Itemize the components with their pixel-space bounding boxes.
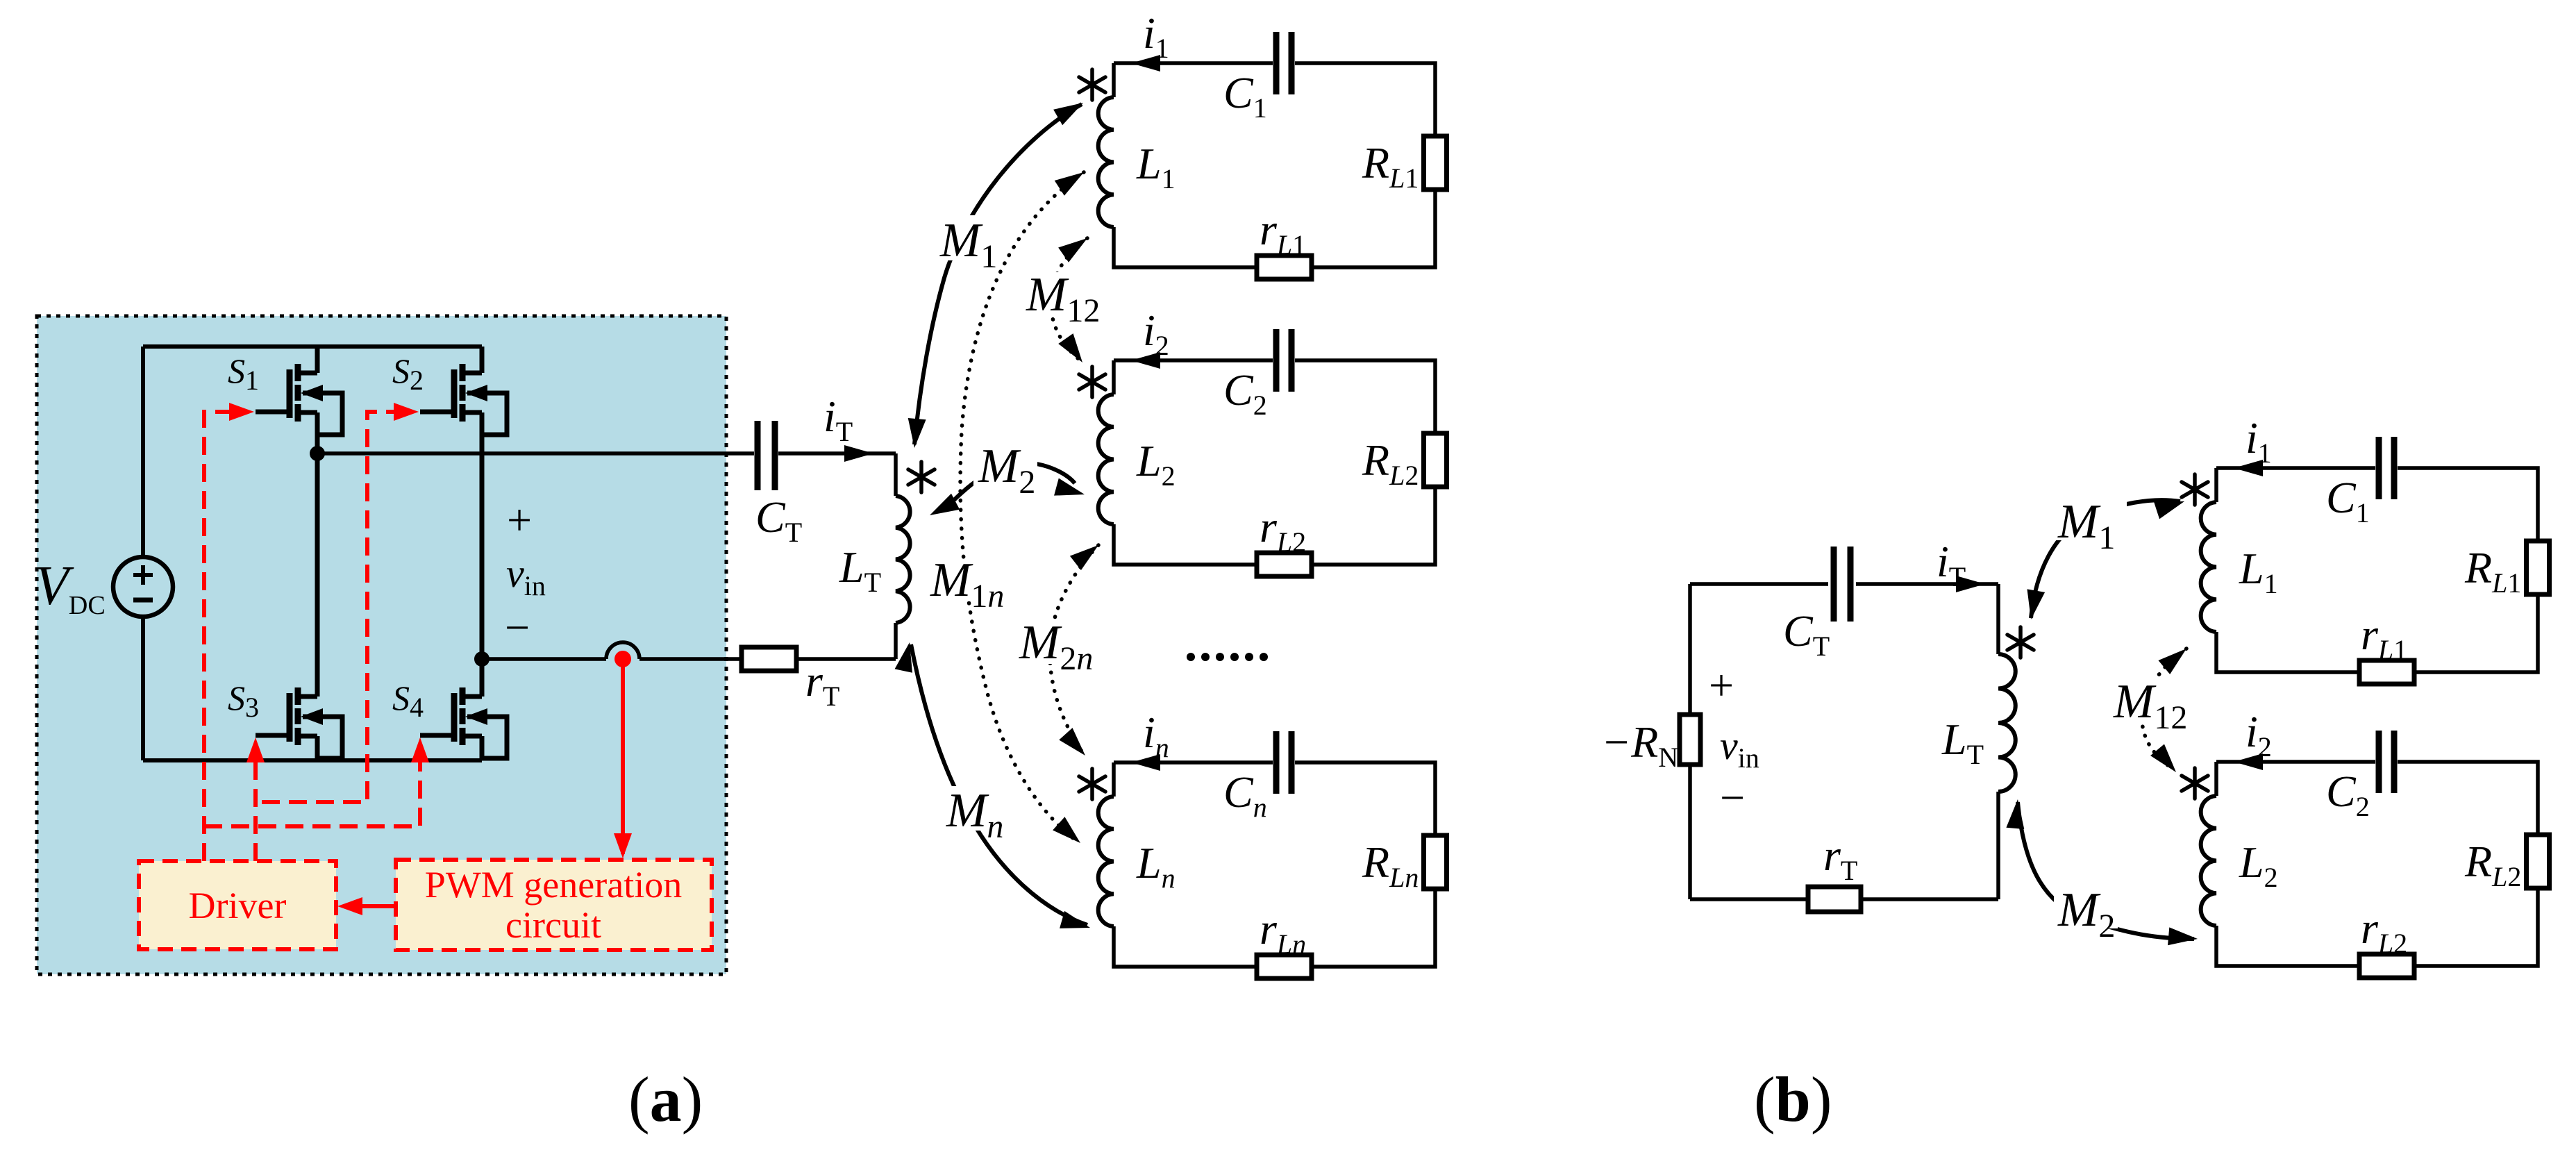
- svg-text:i1: i1: [1143, 8, 1169, 64]
- svg-text:in: in: [1143, 708, 1169, 763]
- svg-text:Driver: Driver: [189, 885, 287, 926]
- svg-text:−: −: [505, 603, 530, 652]
- svg-text:vin: vin: [1720, 723, 1759, 774]
- svg-text:i1: i1: [2245, 413, 2272, 469]
- svg-text:L2: L2: [2239, 837, 2278, 893]
- svg-text:rT: rT: [805, 656, 839, 712]
- svg-text:RL2: RL2: [2464, 837, 2521, 892]
- svg-text:(b): (b): [1754, 1064, 1832, 1135]
- svg-text:LT: LT: [1941, 715, 1984, 770]
- svg-text:C1: C1: [2326, 473, 2370, 528]
- svg-text:iT: iT: [823, 392, 853, 447]
- svg-text:C2: C2: [1223, 365, 1267, 421]
- svg-text:rT: rT: [1823, 831, 1857, 886]
- svg-text:RLn: RLn: [1362, 837, 1419, 893]
- svg-text:i2: i2: [2245, 707, 2272, 762]
- svg-text:rL2: rL2: [2361, 903, 2407, 959]
- svg-text:L1: L1: [1136, 139, 1176, 194]
- svg-text:iT: iT: [1937, 537, 1966, 592]
- svg-text:RL1: RL1: [1362, 138, 1419, 194]
- svg-text:−RN: −RN: [1601, 717, 1678, 773]
- svg-text:CT: CT: [1783, 606, 1830, 662]
- svg-text:rL2: rL2: [1260, 502, 1306, 558]
- svg-text:rLn: rLn: [1260, 904, 1306, 960]
- svg-text:L1: L1: [2239, 544, 2278, 599]
- svg-text:C2: C2: [2326, 767, 2370, 822]
- svg-text:+: +: [507, 495, 532, 544]
- svg-text:C1: C1: [1223, 68, 1267, 124]
- svg-text:rL1: rL1: [2361, 610, 2407, 665]
- svg-text:rL1: rL1: [1260, 205, 1306, 260]
- svg-text:−: −: [1720, 773, 1745, 822]
- svg-text:RL1: RL1: [2464, 543, 2521, 599]
- svg-text:PWM generation: PWM generation: [425, 864, 682, 906]
- svg-text:L2: L2: [1136, 436, 1176, 492]
- svg-text:Cn: Cn: [1223, 767, 1267, 823]
- svg-text:CT: CT: [755, 492, 802, 548]
- svg-text:i2: i2: [1143, 306, 1169, 361]
- svg-text:RL2: RL2: [1362, 435, 1419, 491]
- svg-text:LT: LT: [839, 542, 881, 598]
- svg-text:(a): (a): [628, 1064, 703, 1135]
- svg-text:+: +: [1709, 660, 1734, 710]
- svg-text:Ln: Ln: [1136, 838, 1176, 894]
- svg-text:circuit: circuit: [505, 904, 601, 946]
